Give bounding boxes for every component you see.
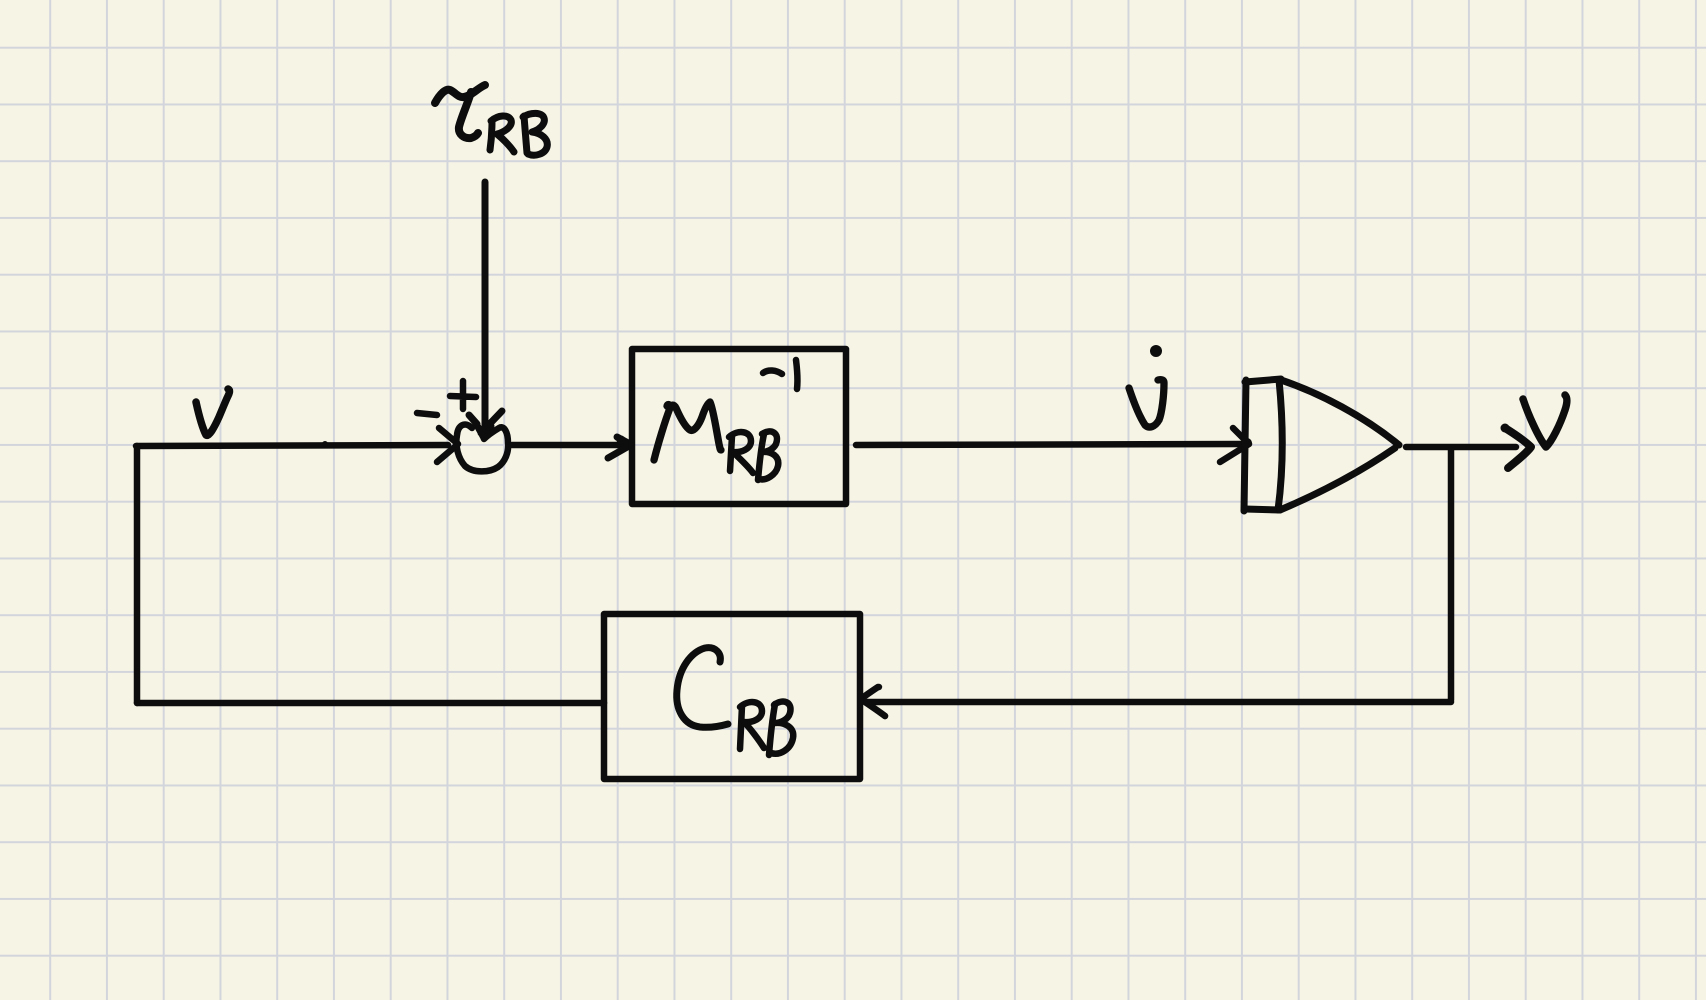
junction dot on wire xyxy=(322,441,328,447)
feedback wire down from output xyxy=(1448,450,1455,700)
block M_RB^-1 xyxy=(632,349,846,504)
arrowhead into summing junction (top) xyxy=(469,411,502,438)
feedback wire to C block xyxy=(866,699,1451,706)
output arrowhead chevron xyxy=(1505,428,1531,468)
label v-dot xyxy=(1129,345,1164,427)
arrowhead into M block xyxy=(608,437,629,458)
arrowhead into integrator xyxy=(1220,428,1249,462)
wire from M block to integrator xyxy=(856,444,1242,445)
label M_RB xyxy=(654,402,778,480)
block C_RB xyxy=(604,614,860,779)
integrator block xyxy=(1244,379,1399,511)
feedback wire from C block to left corner xyxy=(137,700,604,707)
label tau_RB xyxy=(435,85,547,155)
wire from left corner to summing junction xyxy=(136,445,448,446)
feedback wire up the left side xyxy=(134,446,141,703)
node v (feedback signal label, top-left) xyxy=(196,389,230,435)
wire from tau_RB down to summing junction xyxy=(482,182,489,429)
label exponent -1 xyxy=(763,370,782,374)
summing junction xyxy=(456,424,508,471)
minus sign xyxy=(417,413,437,415)
arrowhead into C block xyxy=(861,687,885,716)
wire from summing junction to M block xyxy=(512,442,629,449)
plus sign xyxy=(450,381,476,409)
arrowhead into summing junction (left) xyxy=(437,428,458,462)
node v (output label) xyxy=(1523,395,1567,447)
output wire from integrator xyxy=(1406,444,1516,451)
label C_RB xyxy=(677,648,794,755)
